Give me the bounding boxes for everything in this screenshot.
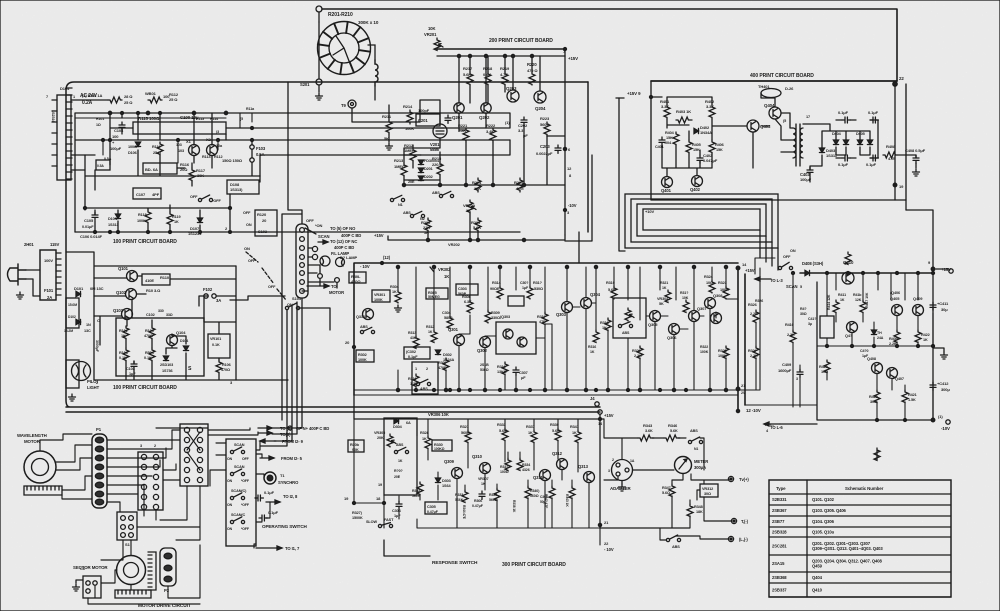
box R305 <box>426 288 448 299</box>
label D408 S3H <box>802 261 824 276</box>
resistor R310 <box>442 311 453 328</box>
lamp PL <box>312 246 317 259</box>
label ABS r <box>690 429 698 433</box>
wire to transformer <box>775 113 793 152</box>
wire opsw nets <box>210 441 270 548</box>
resistor R414 12K <box>827 294 839 313</box>
capacitor C404 0.1uF <box>838 110 850 123</box>
cap 01uF a <box>255 490 275 501</box>
terminal T- <box>731 518 748 524</box>
label PL LAMP <box>331 251 349 256</box>
switch scan1 <box>227 443 250 461</box>
transistor Q302 <box>477 337 491 354</box>
arrow FROM I2-5 <box>260 456 303 461</box>
label extra lower300 <box>462 495 548 520</box>
node 22 <box>893 76 905 86</box>
label 2p2 <box>755 299 763 303</box>
capacitor C401 <box>655 137 665 149</box>
wire +15 rail 400 <box>651 96 662 98</box>
label D302 1S24A <box>435 350 454 362</box>
label 12 +10V <box>736 408 760 413</box>
node 22 -10V <box>604 541 614 552</box>
capacitor C103 1uF <box>126 361 137 376</box>
wire 100 bottom rails <box>75 176 520 232</box>
capacitor C201 100pF <box>416 108 451 126</box>
transistor Q402 <box>690 176 703 193</box>
resistor R411 1K <box>838 252 851 302</box>
wire column top <box>288 82 302 224</box>
resistor R112b <box>152 142 163 155</box>
diode D105 <box>108 214 121 227</box>
switch scan4 <box>227 513 250 531</box>
wire VR306 rail <box>354 395 600 419</box>
capacitor C202 3.3uF <box>518 117 528 138</box>
resistor R327b <box>748 346 759 358</box>
resistor R401 3.3K <box>660 99 670 119</box>
junction dots 300 mid <box>415 267 740 392</box>
wire R211 <box>388 105 390 142</box>
label FROM I2-9 <box>260 439 304 444</box>
resistor R326 2.2K <box>748 303 759 323</box>
resistor R101 1K <box>119 326 129 339</box>
wire F102 to switch <box>230 296 330 330</box>
resistor R226 22K <box>421 218 431 235</box>
wire 300L net <box>354 419 600 545</box>
transformer T401 right winding <box>800 128 803 158</box>
resistor R332 560K <box>500 458 511 474</box>
resistor R218 <box>483 66 493 85</box>
wire 200 bottom rail <box>388 213 565 240</box>
transformer T401 left winding <box>793 128 796 158</box>
switch OFF-ON mid <box>190 195 221 203</box>
resistor R343 3.6K <box>638 423 654 441</box>
wire 300 links <box>459 299 738 390</box>
wire 100L top rail <box>66 252 288 380</box>
capacitor C402 0.047uF <box>697 153 718 163</box>
sector coil bottom <box>115 590 151 598</box>
resistor R342 vert <box>544 486 555 509</box>
resistor R104 0.1K <box>144 348 155 361</box>
wire 200 left drops <box>420 100 486 130</box>
transistor Q407 <box>867 357 883 374</box>
label OPERATING SWITCH <box>262 524 308 529</box>
ground R211 <box>386 143 393 150</box>
box D108 1S313 <box>227 180 259 194</box>
switch ABS contacts <box>390 191 453 207</box>
transformer T101 block <box>40 250 61 300</box>
resistor R119 1K <box>167 212 180 225</box>
resistor R227 4.7E <box>514 178 524 192</box>
capacitor C406 0.1uF <box>838 155 850 167</box>
resistor R416 <box>853 293 862 302</box>
label 17 <box>783 115 810 123</box>
transistor Q310 <box>472 454 491 486</box>
resistor R110 series <box>145 91 170 103</box>
switch S103 linkage <box>244 246 302 310</box>
wire top rail to right edge <box>322 9 897 81</box>
resistor R214 <box>403 104 414 131</box>
transistor Q1 <box>178 139 200 156</box>
label D2 LAMP <box>340 255 358 260</box>
cap 01uF b <box>259 510 279 521</box>
capacitor C412 300u <box>930 381 950 392</box>
junction dots 300 top <box>396 265 727 268</box>
box R302 100K <box>356 350 374 362</box>
switch abs meter <box>688 437 702 451</box>
wire right top rail <box>800 272 933 274</box>
switch abs lower <box>666 535 680 549</box>
connector lower pins <box>64 298 79 333</box>
label cluster 100 upper <box>96 107 255 161</box>
wire column down <box>260 298 302 446</box>
lamp small pair <box>318 274 340 283</box>
transistor Q308 <box>705 293 724 309</box>
node 1 -10V <box>931 414 950 431</box>
transistor Q309 <box>444 459 463 479</box>
capacitor C403 100uF <box>800 167 813 182</box>
resistor R333 5.6M <box>497 423 508 441</box>
resistor R346 5.6K <box>664 423 680 441</box>
resistor R220 470 <box>527 62 538 85</box>
transistor Q101 <box>118 266 138 282</box>
meter <box>675 457 709 474</box>
transistor Q406 <box>913 296 924 316</box>
node 21b <box>598 520 609 527</box>
arrow TO I1-7 <box>256 546 300 551</box>
wire lamps <box>302 248 337 291</box>
fuse F102 3A <box>203 287 221 303</box>
label TO 12 OF NC <box>330 239 357 244</box>
label D104 1S2316 <box>51 86 70 123</box>
ground pilot <box>69 394 76 401</box>
capacitor C411 30u <box>930 301 949 312</box>
transistor Q408 <box>887 368 904 382</box>
connector S1 grid <box>138 444 163 510</box>
wire +15V drop <box>564 49 566 56</box>
transistor Q104 <box>167 330 187 346</box>
capacitor C107 <box>133 188 161 199</box>
wire grid to arrows <box>156 428 258 443</box>
box S1 small <box>117 512 137 547</box>
switch lower ABS <box>403 211 425 221</box>
wire diode bridges <box>803 120 878 182</box>
wire 200 loop <box>565 155 592 263</box>
transistor Q313 <box>578 464 595 483</box>
label R201-R210 <box>328 12 353 18</box>
wire 400 mid <box>662 93 775 176</box>
node 12 label <box>360 255 391 269</box>
terminal T3 <box>728 536 748 542</box>
capacitor C409 1600uF <box>778 362 803 381</box>
resistor R339 5.6K <box>550 423 561 441</box>
resistor R343v <box>565 486 575 507</box>
wire VR302 tap <box>430 267 434 272</box>
label VR202 bottom <box>448 242 461 247</box>
label +15V node7 <box>563 49 578 61</box>
wire Q203 Q204 tops <box>470 56 540 103</box>
resistor R320 <box>632 346 643 358</box>
arrow TO MOTOR <box>307 284 344 295</box>
resistor R325 <box>718 346 729 358</box>
resistor R103 0.1K <box>119 348 129 361</box>
box VR304 <box>613 297 669 338</box>
resistor R324 10 <box>704 275 715 293</box>
wire chassis right edge <box>587 82 589 232</box>
label AC 24V <box>80 93 98 106</box>
capacitor C101 3000uF <box>95 318 100 353</box>
resistor R328 1K <box>420 431 431 449</box>
label 30a <box>800 307 807 316</box>
resistor R333b <box>455 490 468 502</box>
label TO 5 OF NO <box>330 226 356 231</box>
diode D202 <box>418 167 432 173</box>
capacitor C105 <box>82 212 98 229</box>
resistor R421 1.5K <box>902 390 917 402</box>
resistor R105 470 <box>144 326 155 339</box>
pilot light <box>66 360 100 390</box>
resistor R321 560K <box>460 425 471 443</box>
box R115 C100 <box>133 115 226 134</box>
wire 100 extra band <box>75 113 254 234</box>
box C305 <box>425 502 447 514</box>
resistor R313 1MEG <box>394 158 415 184</box>
resistor R319 5.6K <box>606 281 617 299</box>
pot VR201 10K <box>424 26 443 50</box>
switch scan3 <box>227 489 250 507</box>
wire 300 bottom bus <box>354 309 756 395</box>
resistor R402 3.3K <box>705 99 715 119</box>
capacitor C306 <box>472 491 485 508</box>
resistor R217 5.6K <box>463 66 473 85</box>
transistor Q304 <box>581 292 601 309</box>
resistor R348 18K <box>687 504 703 516</box>
connector column mid <box>296 224 308 298</box>
resistor R405 15K <box>686 140 701 153</box>
wire T9 down <box>352 108 420 122</box>
wire 400 top rail <box>651 80 897 82</box>
transistor Q311 <box>533 470 551 481</box>
resistor R340 <box>525 486 540 498</box>
node 19 18 <box>344 483 386 505</box>
transistor Q404 <box>764 103 781 119</box>
fuse F103 <box>250 145 266 162</box>
resistor R331 560K <box>412 482 423 498</box>
box VR305 <box>384 418 417 495</box>
label R322c <box>700 345 709 354</box>
transistor Q2 <box>206 137 223 156</box>
resistor R211 <box>382 114 392 141</box>
label R316b <box>588 330 599 354</box>
label R319b <box>680 291 689 312</box>
sector motor <box>73 556 146 585</box>
terminal T9 <box>341 100 356 108</box>
arrow TO5 top <box>258 426 329 431</box>
resistor R404 15K <box>664 131 679 145</box>
node 14 +15V <box>736 262 755 273</box>
label F101 2A <box>44 288 54 300</box>
wire top-left entry <box>71 100 108 170</box>
terminal Tv+ <box>728 476 749 482</box>
table transistor types <box>769 480 951 597</box>
wavelength motor <box>24 451 56 483</box>
label 100 PRINT CIRCUIT BOARD lower <box>113 385 177 391</box>
resistor R111 2ohm <box>108 94 133 105</box>
label 100V <box>44 258 53 263</box>
transistor Q403 <box>747 120 771 132</box>
adapter socket <box>608 458 635 481</box>
label TO L-4 <box>764 422 775 433</box>
node 1 <box>108 111 510 125</box>
label 100 PRINT CIRCUIT BOARD upper <box>113 239 177 245</box>
resistor R347 5.6 <box>662 484 675 496</box>
resistor R403 <box>676 117 692 123</box>
resistor R309 <box>485 310 500 323</box>
transistor Q202 <box>479 103 491 120</box>
transistor Q410 <box>842 260 854 284</box>
resistor R409 2.2K <box>889 330 900 346</box>
terminal J4 <box>590 396 602 414</box>
diode D201 <box>418 159 440 165</box>
wl motor coil <box>24 486 62 495</box>
transistor Q201 <box>452 103 464 120</box>
resistor R213 1MEG <box>404 143 416 161</box>
diode D402 1N34A <box>694 125 712 135</box>
transistor Q204 <box>534 91 546 111</box>
pot VR305 20K <box>374 431 396 447</box>
pot VR202 1K <box>463 200 476 213</box>
box BD-6A <box>143 162 190 174</box>
resistor R314 90E <box>490 281 503 299</box>
resistor R313 43K <box>408 331 419 348</box>
wire right edge 200 <box>547 56 565 235</box>
wire 400 bottom right <box>895 84 906 210</box>
transformer T401 core <box>796 124 800 166</box>
switch scan2 <box>227 465 250 483</box>
label OFF ON scan <box>305 218 322 234</box>
wire meter net <box>600 419 731 540</box>
transistor Q307 <box>689 306 708 322</box>
box R120 S102 <box>255 210 277 236</box>
transistor Q102 <box>116 289 137 300</box>
resistor R304 1K <box>390 285 402 312</box>
transistor Q404r <box>845 322 858 339</box>
resistor R408 47E <box>883 144 897 161</box>
wire 100 mid cluster <box>85 113 260 210</box>
resistor R312 1K <box>426 325 437 342</box>
rotary switch R201-R210 <box>318 22 371 75</box>
chassis outline (top-left block) <box>66 82 600 412</box>
ground 400 <box>913 169 920 176</box>
sector coil <box>148 552 156 590</box>
wire +15V9 feeder <box>619 98 625 251</box>
capacitor C304 1uF <box>392 501 402 518</box>
wire cross links <box>282 214 302 420</box>
capacitor C203 <box>536 144 561 156</box>
label -10V <box>564 203 577 215</box>
box lower switch <box>412 362 438 394</box>
resistor R306 90K <box>348 440 364 452</box>
label R114 R112 <box>202 155 222 159</box>
label +15V left <box>374 233 384 238</box>
resistor R106 470 <box>216 360 231 373</box>
synchro T1 <box>264 472 299 485</box>
resistor R224 18K <box>472 178 482 192</box>
node 20 <box>345 340 356 349</box>
label 400 PRINT CIRCUIT BOARD <box>750 73 814 79</box>
label R721 <box>660 281 671 302</box>
resistor R337 1K <box>526 425 537 443</box>
ground C411 <box>933 348 948 359</box>
wire 200 board top rail <box>437 48 567 51</box>
resistor R341 1K <box>570 425 581 443</box>
wire 100L internals <box>94 266 236 380</box>
diode D304 <box>393 418 411 429</box>
label 150ohm <box>222 158 243 163</box>
box C410 <box>808 316 834 338</box>
wire right-to-300 links <box>738 258 817 405</box>
capacitor C104 <box>110 122 125 151</box>
tube V201 5886 <box>430 124 447 152</box>
transistor Q405 <box>890 291 903 316</box>
resistor R308 <box>462 295 473 313</box>
label C301 <box>520 281 529 290</box>
resistor R322 <box>600 318 611 330</box>
transistor Q312 <box>552 451 568 470</box>
resistor R323 <box>718 281 729 299</box>
wire right box outline <box>817 210 953 420</box>
wire dial to coil <box>368 45 375 100</box>
diode D107 1S1234 <box>188 218 203 236</box>
resistor R334 <box>517 458 530 472</box>
switch scan OFF ON <box>778 249 797 289</box>
label 2H01 115V <box>24 242 59 247</box>
box VR312 30 <box>700 484 718 497</box>
label R112 R113 <box>169 92 179 102</box>
transistor Q401 <box>661 177 673 194</box>
transistor Q303 <box>556 302 573 318</box>
wire 300 outer box <box>354 263 745 411</box>
junction dots 300 bus <box>396 388 727 391</box>
resistor R420 10R <box>819 360 830 374</box>
node 6 <box>563 147 571 152</box>
box P3 small <box>80 566 101 598</box>
wire nested loops below 400 board <box>625 194 778 270</box>
label WAVELENGTH MOTOR <box>17 433 47 444</box>
box Q-pair <box>496 315 536 354</box>
lamp D2 big <box>320 256 345 267</box>
wire motor nets <box>88 430 200 604</box>
box C303 <box>456 284 478 296</box>
box VR301 100K <box>372 290 390 302</box>
ground below dial <box>316 93 323 100</box>
node 12-8 <box>567 166 572 178</box>
arrow TO L-6 <box>764 422 817 430</box>
transistor Q305 <box>648 311 661 328</box>
label C410b <box>860 349 869 358</box>
label R109 3.0 <box>146 288 161 293</box>
resistor R315 <box>527 281 543 299</box>
connector P1 <box>92 427 107 508</box>
node 21 <box>736 383 746 395</box>
resistor R311 1.3K <box>408 374 419 386</box>
resistor R335 560 <box>489 488 500 502</box>
terminal left of dial <box>300 79 322 87</box>
label +15V 14 <box>598 413 614 426</box>
wire F103 right link <box>260 140 510 176</box>
label OFF ON side <box>243 211 252 227</box>
coil L201 <box>375 60 378 86</box>
label RESPONSE SWITCH <box>384 540 478 566</box>
